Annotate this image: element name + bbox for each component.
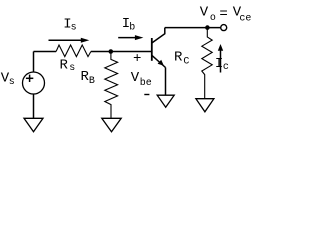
svg-text:V: V [200,5,209,21]
label Ic [215,56,229,73]
transistor Q1 [152,28,166,68]
wire (emitter to ground) [165,68,167,96]
svg-text:R: R [174,49,183,65]
wire (Vs bottom to ground) [33,94,35,118]
resistor RB [105,52,118,119]
ground (below emitter) [157,95,174,107]
wire (Rs to base) [91,51,152,53]
node (base junction) [109,49,114,54]
current arrow Ic [218,44,223,73]
label Ib [122,16,136,34]
resistor Rs [56,45,91,57]
svg-text:s: s [71,23,77,34]
svg-text:s: s [69,63,75,74]
wire (collector to output node) [165,27,221,29]
svg-text:s: s [9,77,15,88]
label + (Vbe plus) [133,51,141,67]
label Vbe [131,70,152,89]
ground (below RC) [196,99,214,112]
svg-text:C: C [183,57,189,68]
terminal Vo (open circle) [221,25,227,31]
svg-text:be: be [140,77,152,89]
svg-text:+: + [133,51,141,67]
svg-text:b: b [129,22,135,34]
current arrow Ib [118,35,143,40]
svg-text:c: c [223,62,229,73]
svg-text:V: V [131,70,140,86]
resistor RC [202,28,212,99]
voltage source Vs [23,72,45,94]
current arrow Is [49,38,90,43]
ground (below Vs) [24,118,43,131]
svg-text:ce: ce [239,13,251,24]
wire (Vs to Rs) [34,51,57,53]
ground (below RB) [102,118,121,132]
svg-text:=: = [219,7,227,23]
svg-text:o: o [210,13,216,24]
wire (Vs top to main node line) [33,52,35,73]
label - (Vbe minus) [144,94,149,96]
svg-text:B: B [89,76,95,87]
label Vo = Vce [200,5,252,25]
label Rs [60,57,76,74]
label RB [81,69,95,87]
label Vs [1,71,15,89]
svg-text:R: R [60,57,69,73]
label RC [174,49,189,67]
label Is [63,17,76,34]
node (collector junction) [205,25,210,30]
